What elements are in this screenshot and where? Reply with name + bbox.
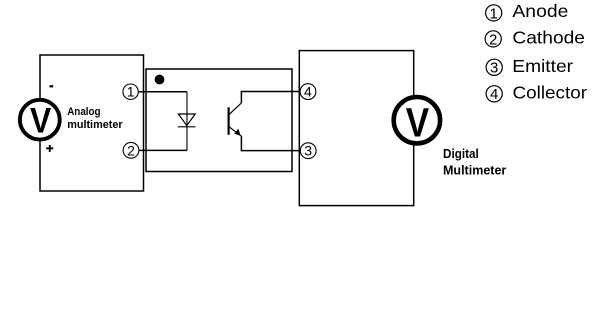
svg-text:1: 1 <box>127 84 135 100</box>
svg-text:1: 1 <box>490 5 498 22</box>
multimeter M1 (analog voltmeter) <box>20 100 60 141</box>
wire: pin 1 to LED anode <box>138 91 188 93</box>
wire: LED anode-cathode vertical <box>186 92 188 151</box>
svg-text:4: 4 <box>490 86 498 103</box>
label: Digital Multimeter <box>443 146 506 177</box>
wire: LED cathode to pin 2 <box>138 149 188 151</box>
svg-text:4: 4 <box>304 84 312 100</box>
svg-text:Collector: Collector <box>513 83 588 103</box>
LED D1 inside optocoupler <box>178 114 196 127</box>
polarity label - (negative terminal) <box>49 85 53 87</box>
svg-text:2: 2 <box>127 142 135 158</box>
wire: collector to pin 4 <box>241 92 301 103</box>
wire: analog multimeter loop (left rectangle) <box>40 55 144 191</box>
svg-text:Multimeter: Multimeter <box>443 163 506 178</box>
svg-text:3: 3 <box>490 60 498 77</box>
pin-1 orientation dot on U1 <box>155 75 165 85</box>
pin 2 marker (cathode) <box>123 142 139 158</box>
svg-text:Analog: Analog <box>67 106 101 118</box>
legend pin 3 marker <box>486 59 502 76</box>
svg-text:Digital: Digital <box>443 146 479 161</box>
svg-text:V: V <box>406 100 430 146</box>
svg-text:2: 2 <box>489 31 497 48</box>
phototransistor Q1 inside optocoupler <box>229 103 242 136</box>
legend pin 2 marker <box>485 31 501 48</box>
wire: digital multimeter loop (right rectangle) <box>299 51 413 206</box>
legend pin 1 marker <box>486 5 502 23</box>
optocoupler U1 package outline <box>146 69 292 172</box>
polarity label + (positive terminal) <box>46 145 53 152</box>
multimeter M2 (digital voltmeter) <box>394 97 440 146</box>
pin 3 marker (emitter) <box>300 143 316 159</box>
svg-text:Emitter: Emitter <box>512 56 573 76</box>
svg-text:Anode: Anode <box>512 1 568 21</box>
label: Analog multimeter <box>67 106 123 131</box>
svg-text:3: 3 <box>304 143 312 159</box>
svg-text:Cathode: Cathode <box>512 28 585 48</box>
pin 1 marker (anode) <box>123 84 138 100</box>
svg-text:V: V <box>30 102 52 141</box>
legend pin 4 marker <box>486 86 502 103</box>
svg-text:multimeter: multimeter <box>67 119 123 131</box>
wire: emitter to pin 3 <box>241 136 301 150</box>
pin 4 marker (collector) <box>300 84 316 100</box>
